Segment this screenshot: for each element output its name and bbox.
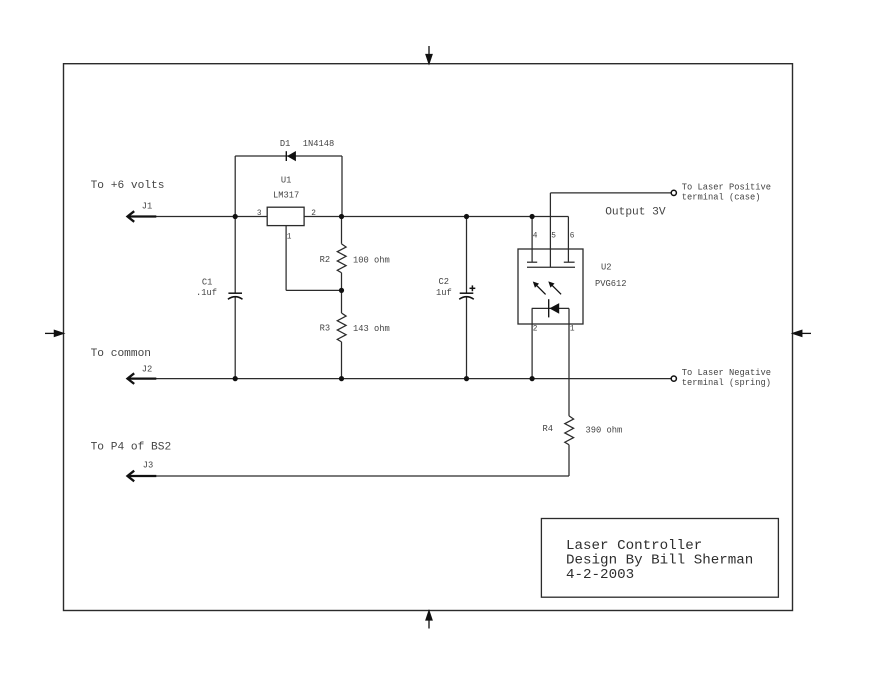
- svg-text:.1uf: .1uf: [196, 288, 217, 298]
- svg-text:J3: J3: [143, 461, 154, 471]
- svg-text:Output 3V: Output 3V: [605, 207, 666, 219]
- svg-text:6: 6: [570, 233, 575, 241]
- svg-text:J1: J1: [142, 202, 153, 212]
- svg-text:100 ohm: 100 ohm: [353, 256, 390, 266]
- svg-text:terminal (spring): terminal (spring): [682, 378, 771, 388]
- svg-text:To Laser Negative: To Laser Negative: [682, 368, 771, 378]
- svg-text:143 ohm: 143 ohm: [353, 324, 390, 334]
- svg-text:5: 5: [551, 233, 556, 241]
- svg-text:3: 3: [257, 210, 262, 218]
- svg-text:R4: R4: [543, 424, 554, 434]
- svg-text:PVG612: PVG612: [595, 279, 627, 289]
- svg-text:R3: R3: [320, 324, 331, 334]
- svg-text:1N4148: 1N4148: [303, 139, 335, 149]
- svg-text:1uf: 1uf: [436, 288, 452, 298]
- svg-text:U2: U2: [601, 263, 612, 273]
- svg-text:2: 2: [533, 326, 538, 334]
- svg-text:1: 1: [570, 326, 575, 334]
- svg-text:J2: J2: [142, 365, 153, 375]
- svg-text:terminal (case): terminal (case): [682, 193, 761, 203]
- svg-text:4-2-2003: 4-2-2003: [566, 567, 634, 583]
- svg-text:C1: C1: [202, 278, 213, 288]
- svg-text:C2: C2: [439, 277, 450, 287]
- svg-text:1: 1: [287, 234, 292, 242]
- svg-text:D1: D1: [280, 139, 291, 149]
- svg-text:To +6 volts: To +6 volts: [91, 180, 165, 192]
- svg-text:To common: To common: [91, 348, 151, 360]
- svg-text:4: 4: [533, 233, 538, 241]
- svg-text:U1: U1: [281, 176, 292, 186]
- svg-text:390 ohm: 390 ohm: [586, 426, 623, 436]
- svg-text:2: 2: [311, 210, 316, 218]
- svg-text:To Laser Positive: To Laser Positive: [682, 183, 771, 193]
- svg-text:To P4 of BS2: To P4 of BS2: [91, 442, 172, 454]
- svg-text:R2: R2: [320, 255, 331, 265]
- svg-text:LM317: LM317: [273, 191, 299, 201]
